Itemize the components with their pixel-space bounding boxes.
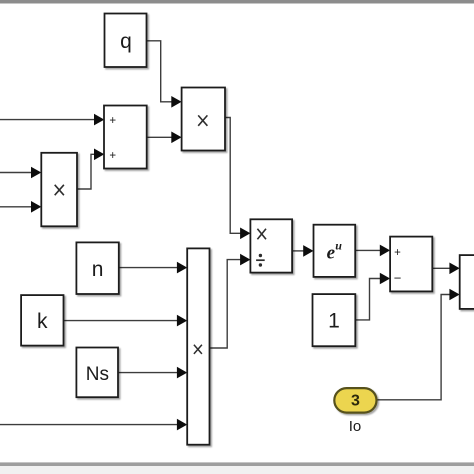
block Ns (76, 348, 118, 398)
svg-text:e: e (327, 243, 336, 264)
wire input3 to Product1 (0, 201, 41, 213)
wire Ns to Mux (118, 367, 187, 379)
wire Exp to Add2 (355, 245, 390, 257)
block k (21, 295, 63, 346)
wire Add1 to Product2 (147, 132, 182, 144)
svg-text:3: 3 (351, 393, 360, 410)
block Divide (250, 219, 292, 272)
wire input2 to Product1 (0, 167, 41, 179)
top frame border (0, 0, 474, 4)
block Constant1 (313, 294, 356, 346)
wire q to Product2 (146, 41, 181, 108)
block Exp eu (314, 225, 356, 277)
wire k to Mux (64, 315, 188, 327)
svg-text:Ns: Ns (86, 364, 109, 385)
block n (76, 242, 118, 294)
wire input4 to Mux (0, 419, 187, 431)
svg-text:q: q (120, 30, 132, 53)
wire Constant1 to Add2 (355, 273, 390, 320)
block Add2 (390, 237, 432, 292)
svg-text:u: u (335, 239, 342, 253)
block Product2 (182, 88, 225, 151)
block Out (460, 255, 474, 309)
wire Divide to Exp (292, 245, 313, 257)
svg-text:−: − (394, 271, 402, 286)
block Mux product (187, 248, 209, 444)
svg-text:+: + (394, 247, 401, 259)
wire Product1 to Add1 (77, 149, 104, 190)
wire Mux to Divide (210, 254, 251, 348)
svg-text:+: + (109, 115, 116, 127)
bottom frame border (0, 462, 474, 466)
wire Product2 to Divide (225, 118, 250, 240)
port Io constant 3 (334, 388, 376, 413)
svg-text:k: k (37, 310, 48, 333)
svg-text:1: 1 (328, 310, 340, 333)
wire Add2 to Out (432, 263, 459, 275)
svg-text:Io: Io (349, 418, 362, 435)
svg-text:+: + (109, 150, 116, 162)
block Product1 (41, 153, 77, 227)
block q (105, 14, 147, 68)
wire Io to Out (377, 289, 460, 400)
wire n to Mux (119, 262, 187, 274)
block Add1 (104, 106, 147, 169)
svg-text:n: n (92, 258, 104, 281)
wire input1 to Add1 (0, 114, 104, 126)
